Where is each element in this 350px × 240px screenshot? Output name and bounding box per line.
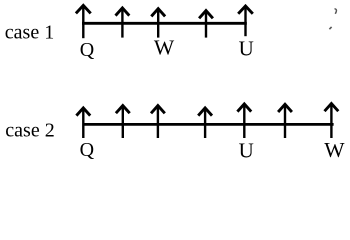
case 1 arrow 3 (W) [151,9,165,38]
case 2 arrow 2 [116,106,130,139]
case 2 arrow 4 [198,108,212,138]
svg-text:case 1: case 1 [5,22,54,44]
svg-text:Q: Q [80,139,95,161]
case 2 arrow 5 (U) [237,104,251,138]
case 1 number line [82,22,247,25]
case 2 arrow 1 (Q) [76,108,90,138]
case 2 number line [83,123,334,126]
svg-text:U: U [239,37,254,61]
stray speck 1 [335,9,337,14]
svg-text:Q: Q [80,39,95,61]
case 2 arrow 3 [151,106,165,138]
svg-text:W: W [324,138,345,162]
stray speck 2 [329,27,331,29]
svg-text:W: W [154,35,175,59]
case 1 arrow 1 (Q) [76,5,91,38]
case 1 arrow 4 [199,11,213,38]
svg-text:case 2: case 2 [5,120,54,142]
case 1 arrow 2 [116,8,130,38]
svg-text:U: U [239,138,254,162]
case 2 arrow 7 (W) [325,104,339,139]
case 2 arrow 6 [278,104,292,138]
case 1 arrow 5 (U) [238,6,253,36]
